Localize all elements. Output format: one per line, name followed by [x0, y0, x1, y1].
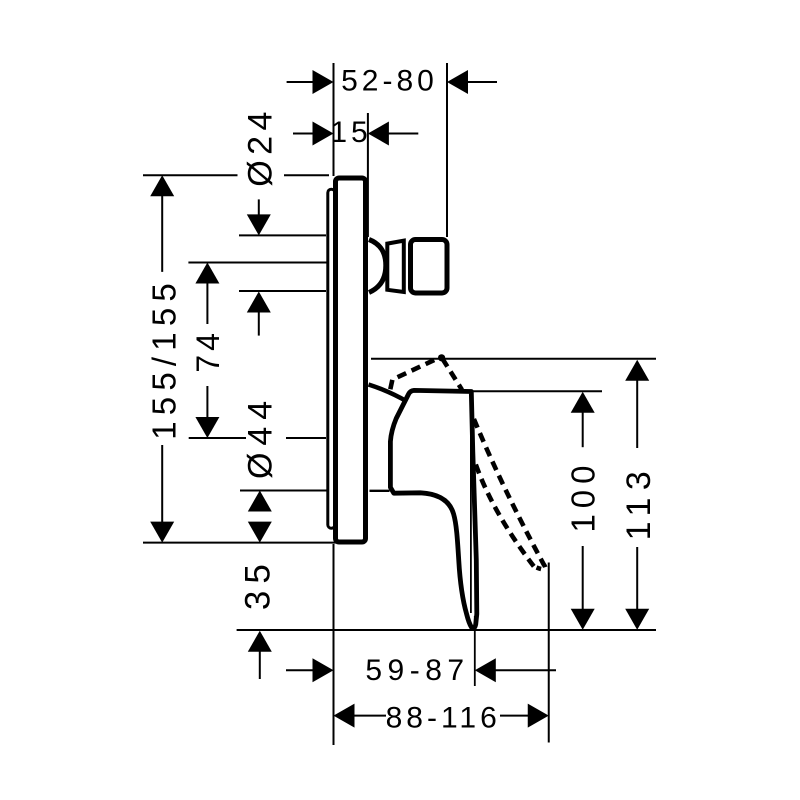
dimension 155/155 [150, 175, 174, 196]
dashed handle in lowered position [474, 419, 545, 569]
extension line V3 spout end [446, 63, 448, 237]
extension line V2 spout start [367, 113, 369, 237]
extension line H7 right part [286, 437, 326, 439]
wall flange (escutcheon sleeve behind plate) [328, 189, 335, 528]
handle stem top curve [369, 385, 408, 402]
extension line H12 handle top level [471, 390, 603, 392]
svg-text:35: 35 [239, 557, 278, 610]
svg-text:59-87: 59-87 [365, 654, 469, 687]
extension line H9 plate bottom [143, 542, 336, 544]
dimension Ø24 (spout diameter) [258, 199, 260, 215]
extension line H4 spout top [239, 234, 326, 236]
dimension 74 [195, 263, 219, 284]
dimension 59-87 row [286, 669, 315, 671]
extension line H8 right part behind plate [370, 490, 390, 492]
svg-text:88-116: 88-116 [386, 701, 501, 734]
spout bulge (cone at plate) [369, 240, 386, 293]
dimension 88-116 row [334, 704, 355, 728]
svg-text:Ø44: Ø44 [241, 394, 279, 479]
dimension 15 row [293, 133, 315, 135]
dimension 100 [571, 392, 595, 413]
extension line V4 wall face bottom [333, 544, 335, 745]
svg-text:Ø24: Ø24 [241, 106, 279, 187]
extension line H5 spout centerline [188, 262, 327, 264]
extension line V1 wall face top [333, 63, 335, 176]
extension line H11 raised handle peak level [371, 358, 656, 360]
spout body [411, 240, 448, 294]
handle body and lever (solid, on position) [390, 390, 476, 628]
svg-text:100: 100 [565, 459, 602, 532]
svg-text:155/155: 155/155 [146, 277, 183, 440]
svg-text:113: 113 [620, 464, 658, 541]
dimension 113 [625, 360, 649, 381]
extension line H7 handle axis (74 bottom) left part [189, 437, 246, 439]
spout collar [387, 241, 404, 292]
dashed handle in raised position [390, 357, 441, 389]
svg-text:52-80: 52-80 [341, 65, 438, 98]
extension line V6 lowered handle tip [548, 563, 550, 743]
extension line H8 chin level left part [240, 490, 327, 492]
extension line H10 main bottom reference [237, 629, 656, 631]
extension line H6 spout bottom [239, 290, 326, 292]
svg-text:15: 15 [330, 116, 371, 149]
svg-text:74: 74 [190, 329, 226, 373]
dimension 52-80 row [287, 81, 315, 83]
extension line V5 handle tip [470, 420, 472, 613]
extension line H3 plate top [143, 174, 238, 176]
wall plate (escutcheon front face) [336, 178, 366, 542]
